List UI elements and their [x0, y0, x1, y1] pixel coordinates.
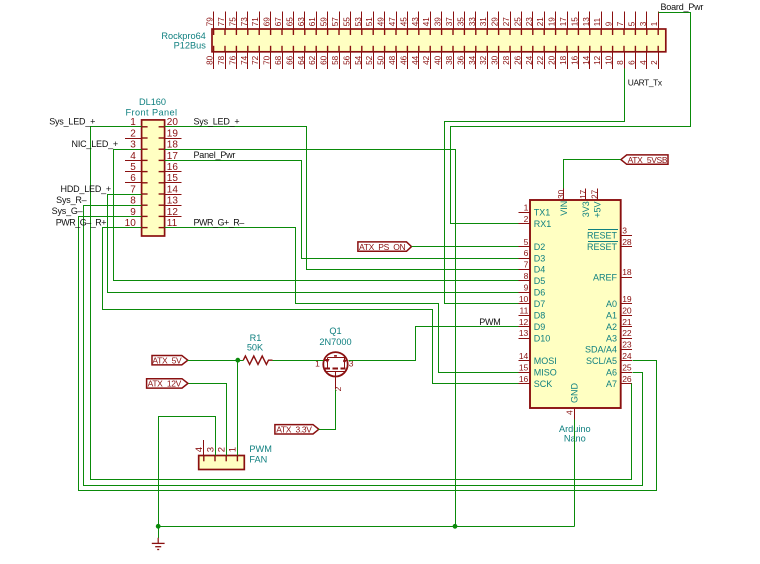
net label Panel_Pwr (J2 pin17)	[194, 150, 236, 160]
net label Sys_LED_+ (J2 pin1)	[49, 117, 95, 127]
svg-text:28: 28	[622, 237, 632, 247]
svg-text:30: 30	[491, 55, 500, 65]
wire ATX_3.3V to Q1 source	[319, 390, 336, 430]
svg-text:RESET: RESET	[587, 230, 618, 240]
svg-text:NIC_LED_+: NIC_LED_+	[72, 139, 118, 149]
svg-text:4: 4	[194, 447, 205, 452]
net label PWR_G+_R- (J2 pin11)	[194, 217, 245, 227]
svg-text:18: 18	[559, 55, 568, 65]
power label ATX_5VSB	[621, 155, 668, 165]
svg-text:D9: D9	[534, 322, 546, 332]
svg-text:19: 19	[548, 17, 557, 27]
svg-text:13: 13	[519, 328, 529, 338]
svg-text:PWM: PWM	[249, 444, 271, 454]
wire R1 to Q1 gate	[273, 360, 324, 362]
svg-text:49: 49	[377, 17, 386, 27]
svg-text:59: 59	[320, 17, 329, 27]
svg-text:R1: R1	[250, 333, 262, 343]
svg-text:51: 51	[365, 17, 374, 27]
svg-text:5: 5	[130, 162, 136, 173]
wire net Sys_G-: J2 pin9 to U1 SCL/A5	[79, 217, 657, 491]
connector J2 DL160 Front Panel	[125, 120, 181, 236]
Q1 pin number 2	[333, 386, 343, 391]
label J2 value Front Panel	[126, 107, 178, 117]
U1 top pins 30 VIN, 17 3V3, 27 +5V	[557, 189, 603, 218]
svg-text:HDD_LED_+: HDD_LED_+	[61, 184, 111, 194]
svg-text:D4: D4	[534, 265, 546, 275]
svg-text:A1: A1	[606, 310, 617, 320]
net label Sys_G- (J2 pin9)	[52, 206, 83, 216]
svg-text:64: 64	[297, 55, 306, 65]
svg-text:12: 12	[519, 317, 529, 327]
power label ATX_3.3V	[275, 425, 319, 435]
svg-text:77: 77	[217, 17, 226, 27]
svg-text:76: 76	[228, 55, 237, 65]
svg-text:D10: D10	[534, 333, 551, 343]
svg-text:TX1: TX1	[534, 208, 551, 218]
pin numbers J3 4,3,2,1	[194, 447, 239, 452]
svg-text:2: 2	[650, 60, 659, 65]
svg-text:35: 35	[456, 17, 465, 27]
svg-text:52: 52	[365, 55, 374, 65]
svg-text:61: 61	[308, 17, 317, 27]
svg-text:D5: D5	[534, 276, 546, 286]
label J1 reference Rockpro64	[161, 31, 205, 41]
svg-text:33: 33	[468, 17, 477, 27]
Q1 pin number 3	[349, 359, 354, 369]
label J3 reference PWM	[249, 444, 271, 454]
svg-text:8: 8	[524, 271, 529, 281]
svg-text:A3: A3	[606, 333, 617, 343]
svg-text:SCK: SCK	[534, 379, 553, 389]
svg-text:17: 17	[559, 17, 568, 27]
svg-text:11: 11	[519, 305, 528, 315]
wire ATX_5V to R1 and junction	[188, 360, 244, 362]
svg-text:12: 12	[593, 55, 602, 65]
svg-text:15: 15	[519, 362, 529, 372]
svg-text:57: 57	[331, 17, 340, 27]
svg-text:D7: D7	[534, 299, 546, 309]
svg-text:2: 2	[130, 128, 136, 139]
svg-text:D6: D6	[534, 288, 546, 298]
svg-text:22: 22	[536, 55, 545, 65]
svg-text:74: 74	[240, 55, 249, 65]
svg-text:27: 27	[502, 17, 511, 27]
svg-text:ATX_5VSB: ATX_5VSB	[628, 155, 668, 165]
svg-text:8: 8	[616, 60, 625, 65]
svg-text:ATX_PS_ON: ATX_PS_ON	[359, 242, 406, 252]
wire net HDD_LED_+: J2 pin7 to U1 D6	[108, 195, 519, 293]
wire net PWR_G+_R-: J2 pin11 to U1 MISO	[165, 228, 519, 373]
svg-text:PWR_G–_R+: PWR_G–_R+	[56, 217, 107, 227]
wire J2 pin18 to ground rail	[165, 150, 456, 527]
net label Sys_R- (J2 pin8)	[56, 195, 87, 205]
wire U1 GND pin to ground rail	[574, 420, 576, 527]
net label Sys_LED_+ (J2 pin20)	[194, 117, 240, 127]
svg-text:48: 48	[388, 55, 397, 65]
svg-text:Sys_LED_+: Sys_LED_+	[49, 117, 95, 127]
svg-text:73: 73	[240, 17, 249, 27]
IC U1 Arduino Nano body	[530, 200, 621, 408]
svg-text:23: 23	[525, 17, 534, 27]
connector J1 Rockpro64 P12Bus	[212, 12, 666, 69]
svg-text:6: 6	[627, 60, 636, 65]
svg-text:Panel_Pwr: Panel_Pwr	[194, 150, 236, 160]
svg-text:ATX_12V: ATX_12V	[148, 379, 182, 389]
U1 right pins 3,28,18-26 with numbers and names	[585, 225, 632, 389]
svg-text:1: 1	[524, 203, 529, 213]
svg-text:26: 26	[513, 55, 522, 65]
svg-text:16: 16	[519, 374, 529, 384]
svg-text:Sys_G–: Sys_G–	[52, 206, 83, 216]
svg-text:53: 53	[354, 17, 363, 27]
svg-text:2: 2	[333, 386, 343, 391]
svg-text:13: 13	[167, 196, 179, 207]
svg-text:44: 44	[411, 55, 420, 65]
svg-text:1: 1	[650, 21, 659, 26]
svg-text:24: 24	[622, 351, 632, 361]
svg-text:2N7000: 2N7000	[319, 337, 351, 347]
wire ATX_12V to J3 pin2	[189, 384, 227, 456]
svg-text:19: 19	[167, 128, 179, 139]
net label HDD_LED_+ (J2 pin7)	[61, 184, 111, 194]
svg-text:A2: A2	[606, 322, 617, 332]
svg-text:32: 32	[479, 55, 488, 65]
svg-text:25: 25	[513, 17, 522, 27]
svg-text:39: 39	[434, 17, 443, 27]
svg-text:80: 80	[206, 55, 215, 65]
svg-text:D2: D2	[534, 242, 546, 252]
svg-text:Board_Pwr: Board_Pwr	[661, 2, 704, 12]
svg-text:46: 46	[399, 55, 408, 65]
svg-text:71: 71	[251, 17, 260, 27]
svg-text:34: 34	[468, 55, 477, 65]
svg-text:22: 22	[622, 328, 632, 338]
wire ground rail	[159, 526, 575, 528]
net label PWR_G-_R+ (J2 pin10)	[56, 217, 107, 227]
svg-text:16: 16	[167, 162, 179, 173]
svg-text:A7: A7	[606, 379, 617, 389]
pin numbers J1 bottom row (even 80..2)	[206, 55, 660, 65]
ground symbol	[152, 526, 165, 549]
svg-text:75: 75	[228, 17, 237, 27]
label U1 value Nano	[564, 434, 586, 444]
svg-text:D8: D8	[534, 310, 546, 320]
transistor Q1 2N7000 MOSFET	[323, 352, 347, 389]
svg-text:15: 15	[570, 17, 579, 27]
svg-text:10: 10	[605, 55, 614, 65]
svg-text:21: 21	[536, 17, 545, 27]
wire net PWR_G-_R+: J2 pin10 to U1 SCK	[103, 228, 519, 384]
svg-text:21: 21	[622, 317, 632, 327]
svg-text:20: 20	[548, 55, 557, 65]
net label NIC_LED_+ (J2 pin3)	[72, 139, 118, 149]
label Q1 value 2N7000	[319, 337, 351, 347]
svg-text:4: 4	[639, 60, 648, 65]
label J2 reference DL160	[139, 97, 166, 107]
svg-text:16: 16	[570, 55, 579, 65]
svg-text:5: 5	[524, 237, 529, 247]
svg-text:7: 7	[616, 21, 625, 26]
svg-text:MOSI: MOSI	[534, 356, 557, 366]
label R1 reference	[250, 333, 262, 343]
svg-text:18: 18	[622, 267, 632, 277]
label J3 value FAN	[249, 455, 267, 465]
Q1 pin number 1	[315, 359, 320, 369]
svg-text:9: 9	[524, 283, 529, 293]
svg-text:Q1: Q1	[329, 326, 341, 336]
svg-text:20: 20	[622, 305, 632, 315]
svg-text:29: 29	[491, 17, 500, 27]
svg-text:6: 6	[524, 248, 529, 258]
svg-text:60: 60	[320, 55, 329, 65]
svg-text:28: 28	[502, 55, 511, 65]
svg-text:Sys_R–: Sys_R–	[56, 195, 87, 205]
svg-text:24: 24	[525, 55, 534, 65]
pin numbers J1 top row (odd 79..1)	[206, 17, 660, 27]
svg-text:17: 17	[579, 189, 588, 199]
svg-text:54: 54	[354, 55, 363, 65]
svg-text:SDA/A4: SDA/A4	[585, 345, 617, 355]
svg-text:3: 3	[639, 21, 648, 26]
power label ATX_5V	[152, 355, 188, 365]
svg-text:P12Bus: P12Bus	[174, 40, 207, 50]
svg-text:UART_Tx: UART_Tx	[628, 77, 663, 87]
svg-text:10: 10	[519, 294, 529, 304]
svg-text:41: 41	[422, 17, 431, 27]
wire net Sys_LED_+: J2 pin1 to U1 A7	[91, 127, 632, 480]
svg-text:38: 38	[445, 55, 454, 65]
svg-text:65: 65	[285, 17, 294, 27]
svg-text:14: 14	[582, 55, 591, 65]
svg-text:+5V: +5V	[592, 202, 602, 218]
svg-text:PWR_G+_R–: PWR_G+_R–	[194, 217, 245, 227]
svg-text:7: 7	[130, 184, 136, 195]
label J1 value P12Bus	[174, 40, 207, 50]
svg-text:DL160: DL160	[139, 97, 166, 107]
wire net Sys_LED_+ right: J2 pin20 to U1 D4	[165, 127, 519, 270]
svg-text:36: 36	[456, 55, 465, 65]
svg-text:40: 40	[434, 55, 443, 65]
svg-text:3V3: 3V3	[581, 201, 591, 217]
svg-text:SCL/A5: SCL/A5	[586, 356, 617, 366]
net label PWM	[479, 317, 500, 327]
wire junction to J3 pin1	[237, 361, 239, 456]
net label UART_Tx	[628, 77, 663, 87]
wire net PWM: Q1 drain to U1 D9	[349, 327, 519, 361]
svg-text:6: 6	[130, 173, 136, 184]
svg-text:14: 14	[519, 351, 529, 361]
junction ground rail / J2 pin18 wire	[453, 524, 458, 529]
U1 left pins 1,2,5-16 with numbers and names	[519, 203, 557, 390]
pin numbers J2 left (1-10) and right (20-11)	[125, 117, 179, 229]
svg-text:VIN: VIN	[559, 201, 569, 216]
svg-text:47: 47	[388, 17, 397, 27]
svg-text:78: 78	[217, 55, 226, 65]
svg-text:9: 9	[605, 21, 614, 26]
svg-text:14: 14	[167, 184, 179, 195]
svg-text:2: 2	[524, 214, 529, 224]
svg-text:37: 37	[445, 17, 454, 27]
junction ground rail / fan wire / ground symbol	[156, 524, 161, 529]
svg-text:4: 4	[565, 410, 575, 415]
connector J3 PWM FAN	[199, 440, 245, 470]
svg-text:12: 12	[167, 207, 179, 218]
svg-text:72: 72	[251, 55, 260, 65]
svg-text:RX1: RX1	[534, 219, 552, 229]
power label ATX_12V	[147, 379, 188, 389]
svg-text:11: 11	[593, 17, 602, 26]
svg-text:56: 56	[342, 55, 351, 65]
svg-text:30: 30	[557, 189, 566, 199]
svg-text:3: 3	[205, 447, 216, 452]
wire net Panel_Pwr: J2 pin17 to U1 D3	[165, 161, 519, 259]
svg-text:63: 63	[297, 17, 306, 27]
svg-text:26: 26	[622, 374, 632, 384]
svg-text:4: 4	[130, 151, 136, 162]
svg-text:45: 45	[399, 17, 408, 27]
svg-text:Front Panel: Front Panel	[126, 107, 178, 117]
svg-text:23: 23	[622, 340, 632, 350]
svg-text:50: 50	[377, 55, 386, 65]
wire ATX_PS_ON to U1 D2	[412, 246, 519, 248]
net label Board_Pwr	[661, 2, 704, 12]
wire net UART_Tx: P12Bus pin8 to U1 D7	[445, 69, 625, 304]
label Q1 reference	[329, 326, 341, 336]
svg-text:3: 3	[622, 225, 627, 235]
svg-text:62: 62	[308, 55, 317, 65]
svg-text:5: 5	[627, 21, 636, 26]
U1 bottom pin 4 GND	[565, 383, 580, 420]
svg-text:68: 68	[274, 55, 283, 65]
svg-text:A6: A6	[606, 368, 617, 378]
svg-text:Sys_LED_+: Sys_LED_+	[194, 117, 240, 127]
svg-text:GND: GND	[569, 383, 579, 404]
svg-text:ATX_3.3V: ATX_3.3V	[276, 425, 312, 435]
svg-text:25: 25	[622, 362, 632, 372]
svg-text:66: 66	[285, 55, 294, 65]
junction ATX_5V / R1 / J3 pin1	[235, 358, 240, 363]
power label ATX_PS_ON	[358, 242, 412, 252]
svg-text:43: 43	[411, 17, 420, 27]
wire J3 pin3 to ground	[159, 417, 216, 527]
wire net Board_Pwr: P12Bus pin1 to U1 RX1	[451, 13, 691, 224]
svg-text:13: 13	[582, 17, 591, 27]
svg-text:31: 31	[479, 17, 488, 27]
label U1 reference Arduino	[559, 424, 591, 434]
svg-text:69: 69	[263, 17, 272, 27]
svg-text:Rockpro64: Rockpro64	[161, 31, 205, 41]
svg-text:FAN: FAN	[249, 455, 267, 465]
svg-text:19: 19	[622, 294, 632, 304]
svg-text:7: 7	[524, 260, 529, 270]
svg-text:50K: 50K	[247, 342, 264, 352]
wire U1 VIN to ATX_5VSB	[564, 160, 621, 189]
svg-text:58: 58	[331, 55, 340, 65]
resistor R1	[243, 356, 272, 364]
svg-text:79: 79	[206, 17, 215, 27]
svg-text:42: 42	[422, 55, 431, 65]
label R1 value 50K	[247, 342, 264, 352]
wire net NIC_LED_+: J2 pin3 to U1 D5	[114, 150, 519, 281]
svg-text:D3: D3	[534, 253, 546, 263]
svg-text:70: 70	[263, 55, 272, 65]
svg-text:ATX_5V: ATX_5V	[152, 355, 182, 365]
svg-text:67: 67	[274, 17, 283, 27]
svg-text:55: 55	[342, 17, 351, 27]
svg-text:PWM: PWM	[479, 317, 500, 327]
svg-text:15: 15	[167, 173, 179, 184]
svg-text:MISO: MISO	[534, 368, 557, 378]
wire net Sys_R-: J2 pin8 to U1 A6	[84, 206, 643, 486]
svg-text:RESET: RESET	[587, 242, 618, 252]
svg-text:AREF: AREF	[593, 272, 618, 282]
svg-text:27: 27	[590, 189, 599, 199]
svg-text:2: 2	[217, 447, 228, 452]
svg-text:A0: A0	[606, 299, 617, 309]
